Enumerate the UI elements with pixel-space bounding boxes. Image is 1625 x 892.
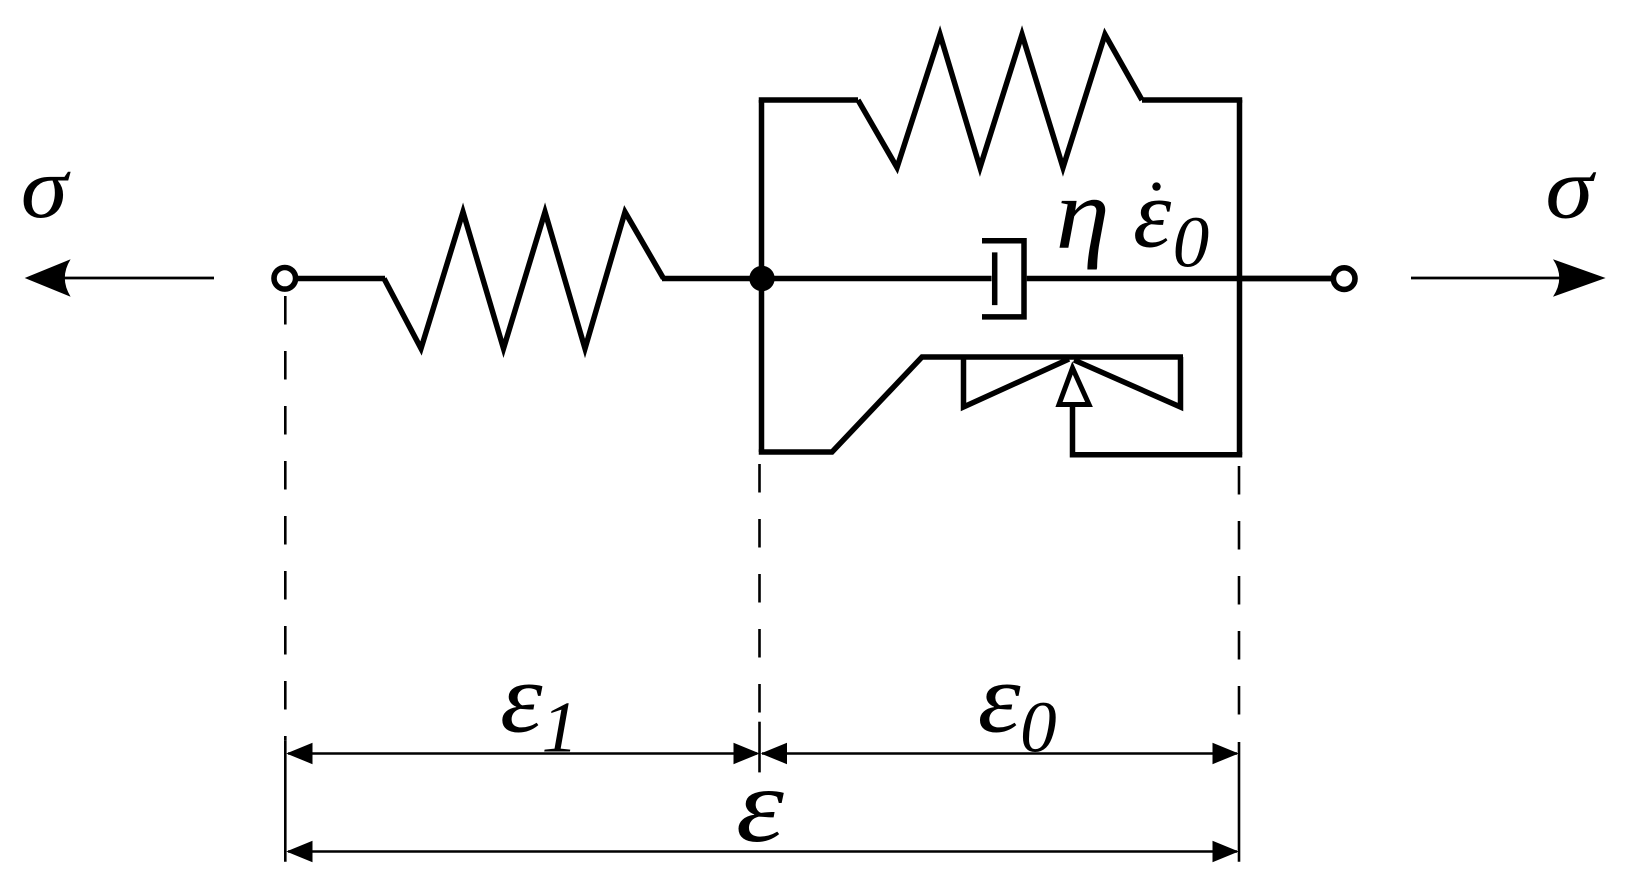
wire top-right horizontal bbox=[1142, 97, 1242, 103]
dashpot cylinder bbox=[982, 241, 1024, 317]
wire top-left horizontal bbox=[759, 97, 858, 103]
wire left terminal to spring bbox=[295, 276, 385, 282]
svg-text:ε: ε bbox=[500, 642, 543, 753]
sigma label left bbox=[21, 138, 72, 236]
extension line left (solid tick) bbox=[284, 741, 287, 862]
left rail of parallel box bbox=[759, 100, 765, 452]
extension line left (dashed) bbox=[284, 296, 287, 741]
svg-text:ε: ε bbox=[736, 746, 784, 864]
friction arrow stem and bottom-right wire bbox=[1073, 405, 1243, 455]
terminal right bbox=[1333, 268, 1355, 290]
label epsilon (total strain) bbox=[736, 746, 784, 864]
terminal left bbox=[274, 268, 296, 290]
dimension line epsilon0 bbox=[761, 743, 1239, 764]
spring E1 (series spring) bbox=[384, 212, 664, 349]
right rail of parallel box bbox=[1237, 100, 1243, 455]
svg-text:σ: σ bbox=[1545, 140, 1596, 237]
extension line right (solid tick) bbox=[1238, 742, 1241, 862]
wire node to dashpot piston bbox=[762, 276, 992, 282]
label eta bbox=[1056, 157, 1110, 270]
label epsilon0 bbox=[978, 643, 1057, 768]
stress arrow right bbox=[1411, 259, 1606, 296]
label epsilon1 bbox=[500, 642, 578, 767]
stress arrow left bbox=[25, 259, 214, 296]
dot of epsilon-dot bbox=[1152, 182, 1160, 190]
wire dashpot to right rail and terminal bbox=[1027, 276, 1333, 282]
svg-text:σ: σ bbox=[21, 138, 72, 236]
extension line right (dashed) bbox=[1238, 466, 1241, 715]
friction slider left wedge bbox=[964, 357, 1070, 407]
friction slider bottom-left path bbox=[762, 357, 1184, 452]
dimension line epsilon1 bbox=[286, 743, 759, 764]
svg-text:ε: ε bbox=[1133, 160, 1172, 267]
spring E0 (top branch) bbox=[858, 35, 1142, 168]
svg-text:ε: ε bbox=[978, 643, 1022, 754]
svg-text:1: 1 bbox=[542, 686, 579, 767]
svg-text:0: 0 bbox=[1173, 202, 1210, 283]
node A (junction) bbox=[749, 266, 774, 291]
wire right rail to terminal bbox=[1240, 276, 1334, 282]
friction slider right wedge bbox=[1074, 357, 1181, 407]
sigma label right bbox=[1545, 140, 1596, 237]
wire spring to node bbox=[662, 276, 765, 282]
extension line middle (dashed) bbox=[758, 464, 761, 713]
friction arrow (hollow, pointing up) bbox=[1059, 368, 1089, 405]
dashpot piston bbox=[992, 252, 998, 305]
svg-text:0: 0 bbox=[1020, 686, 1057, 767]
svg-text:η: η bbox=[1056, 157, 1110, 270]
dimension line epsilon (total) bbox=[286, 841, 1238, 862]
extension line middle (solid tick) bbox=[758, 722, 761, 773]
